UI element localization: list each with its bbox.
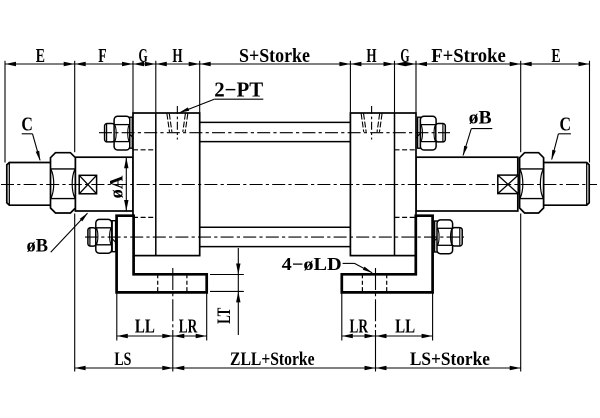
right bottom tie-rod washer [435,221,438,252]
left rod key cross-box [79,175,96,194]
hidden line left gland bore [133,149,156,151]
extension line E right end [589,61,591,163]
right rod collar [416,157,518,211]
svg-text:øA: øA [107,175,128,198]
extension line left foot inner [206,293,208,341]
svg-text:LR: LR [179,316,198,337]
svg-text:4−øLD: 4−øLD [282,254,342,274]
svg-text:ZLL+Storke: ZLL+Storke [230,349,315,370]
right port 2-PT threads [361,114,364,132]
left port centerline [176,106,178,140]
svg-text:øB: øB [469,108,492,129]
right bottom tie-rod stub [452,228,462,246]
svg-text:H: H [172,45,182,67]
top dimension line [5,63,590,65]
left rod collar [75,157,133,211]
extension line right foot inner [341,293,343,341]
dimension LS/ZLL+Storke/LS+Storke line [75,367,521,369]
left foot bracket [117,216,207,293]
right piston rod threaded end [544,163,590,206]
left bottom tie-rod nut [96,219,112,253]
svg-text:LT: LT [214,307,235,323]
svg-text:2−PT: 2−PT [214,78,263,102]
extension line right foot outer [432,293,434,341]
right foot bracket [342,216,433,293]
right bottom tie-rod nut [437,220,453,254]
right foot hole øLD [361,274,363,292]
extension line F/G [132,61,134,113]
right top tie-rod nut [420,116,436,150]
svg-text:F+Stroke: F+Stroke [431,45,506,67]
svg-text:LL: LL [135,316,155,337]
extension line F/E right [520,61,522,152]
extension line H/S [199,61,201,113]
wire tie-rod top (between covers) [200,121,351,123]
top dimension arrows [5,62,16,66]
extension line G/H [155,61,157,113]
thread tick left bottom [112,238,117,243]
extension line H/G right [394,61,396,113]
right rod key cross-box [498,175,518,194]
svg-text:C: C [21,114,33,136]
left rod hex nut [51,153,76,213]
right port centerline [371,106,373,140]
thread tick left top [129,134,133,139]
left foot hole centerline [172,268,174,330]
top tie-rod centerline [99,132,450,134]
left cylinder head cover [133,113,200,256]
svg-text:G: G [400,45,409,67]
svg-text:LS: LS [114,349,131,370]
left bottom tie-rod washer [112,221,115,252]
svg-text:øB: øB [27,236,49,257]
extension line left foot outer [116,293,118,341]
thread tick right bottom [432,238,437,243]
main centerline [1,184,597,186]
hidden line right gland bore [395,149,417,151]
left top tie-rod stub [105,124,115,142]
left foot hole øLD [157,274,159,292]
left top tie-rod washer [130,117,133,148]
extension line G/F right [415,61,417,113]
extension line E left [4,61,6,163]
extension line E/F [74,61,76,152]
right cylinder head cover [350,113,416,256]
left top tie-rod nut [114,116,130,150]
svg-text:F: F [98,45,106,67]
dimension LL/LR left [117,335,207,337]
svg-text:C: C [560,114,572,136]
svg-text:E: E [551,45,560,67]
left bottom tie-rod stub [88,228,96,246]
svg-text:H: H [366,45,376,67]
svg-text:S+Storke: S+Storke [239,45,310,67]
dimension LR/LL right [342,335,433,337]
right foot hole centerline [375,268,377,330]
bottom tie-rod centerline [85,236,464,238]
svg-text:LS+Storke: LS+Storke [410,349,490,370]
left piston rod threaded end [7,163,52,206]
right rod hex nut [520,153,544,213]
right top tie-rod stub [436,124,446,142]
dimension LT [210,274,244,276]
svg-text:LL: LL [395,316,415,337]
left port 2-PT threads [167,114,170,132]
extension line S/H right [349,61,351,113]
wire tie-rod bottom (between covers) [200,226,351,228]
thread tick right top [416,134,420,139]
svg-text:G: G [139,45,148,67]
svg-text:LR: LR [350,317,369,338]
dimension øA [125,157,127,211]
right top tie-rod washer [418,117,421,148]
svg-text:E: E [36,45,45,67]
